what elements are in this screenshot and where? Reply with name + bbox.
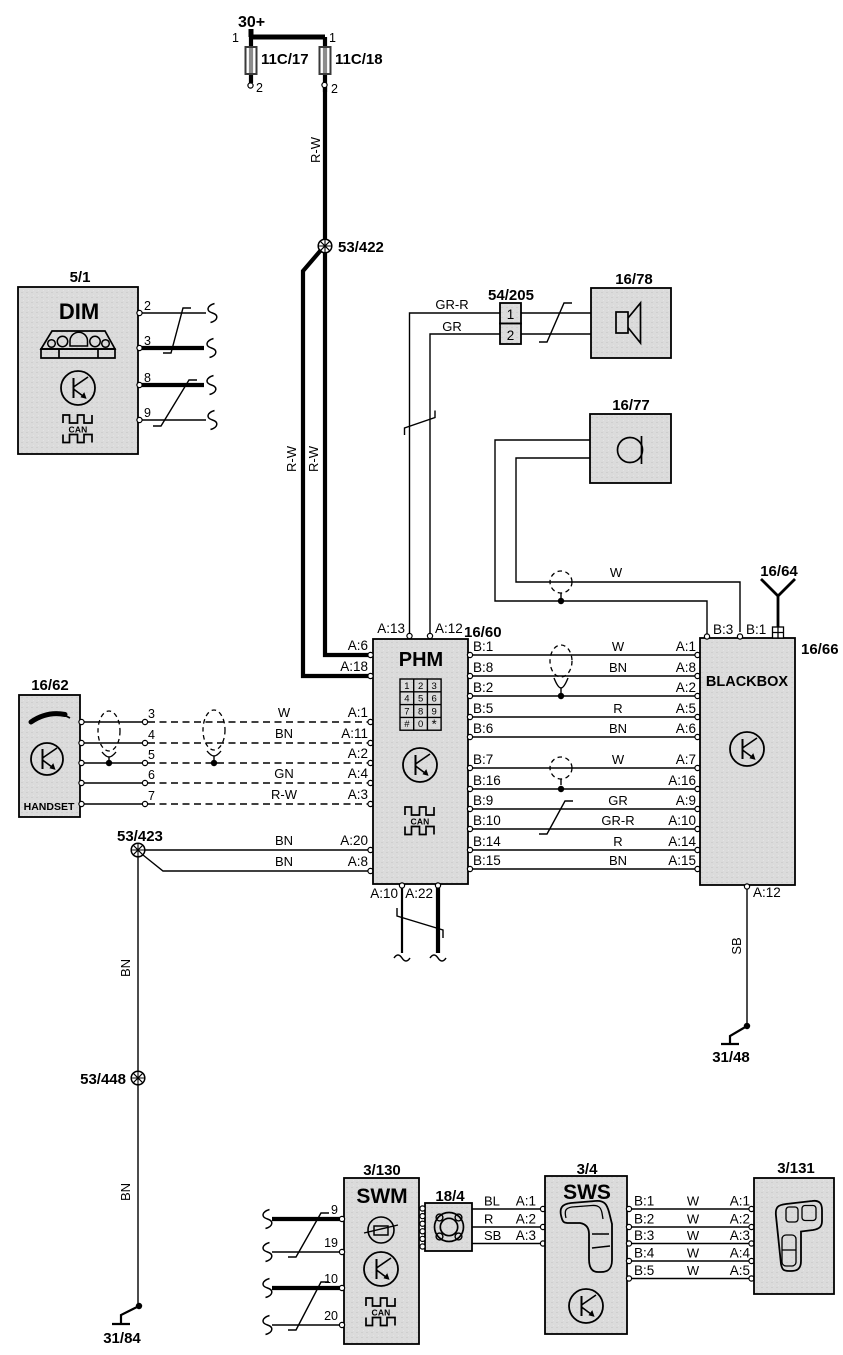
svg-text:A:2: A:2 (730, 1212, 750, 1227)
svg-text:B:14: B:14 (473, 834, 501, 849)
wire W SWS B:5 to 3/131 A:5 (626, 1276, 631, 1281)
SWS transistor icon (569, 1289, 603, 1323)
svg-text:R: R (613, 701, 622, 716)
wire 54/205 pin1 to speaker (521, 312, 591, 314)
svg-text:B:15: B:15 (473, 853, 501, 868)
svg-text:DIM: DIM (59, 299, 99, 324)
svg-text:#: # (404, 719, 410, 730)
shield symbol B:7 (550, 757, 572, 779)
3/131 keypad icon (776, 1201, 822, 1271)
svg-text:16/78: 16/78 (615, 271, 653, 288)
svg-text:0: 0 (418, 719, 423, 730)
pin A:12 of BLACKBOX (744, 884, 749, 889)
svg-text:A:6: A:6 (676, 721, 696, 736)
svg-text:B:5: B:5 (634, 1263, 654, 1278)
wire W PHM B:7 to BLACKBOX A:7 (467, 765, 472, 770)
svg-text:GR: GR (608, 793, 628, 808)
svg-text:R-W: R-W (306, 445, 321, 472)
wire link PHM B:16 to BLACKBOX A:16 (467, 786, 472, 791)
svg-text:5: 5 (418, 694, 423, 705)
wire W SWS B:2 to 3/131 A:2 (626, 1224, 631, 1229)
wire R PHM B:5 to BLACKBOX A:5 (467, 714, 472, 719)
svg-text:53/422: 53/422 (338, 239, 384, 256)
pin 9 of SWM + wire (272, 1217, 340, 1221)
svg-text:6: 6 (432, 694, 437, 705)
pin A:13 of PHM (407, 633, 412, 638)
svg-text:16/62: 16/62 (31, 677, 69, 694)
svg-text:A:8: A:8 (348, 854, 368, 869)
svg-text:A:4: A:4 (730, 1246, 751, 1261)
twisted pair symbol mid harness (203, 710, 225, 750)
svg-text:GR-R: GR-R (601, 813, 634, 828)
svg-text:B:9: B:9 (473, 793, 493, 808)
svg-text:20: 20 (324, 1309, 338, 1323)
wire GR to 54/205 pin 2 (430, 334, 500, 636)
svg-text:B:8: B:8 (473, 660, 493, 675)
break symbol SWM 10/20 (288, 1282, 329, 1330)
svg-text:A:15: A:15 (668, 853, 696, 868)
svg-text:R: R (484, 1212, 493, 1227)
svg-text:A:1: A:1 (516, 1194, 536, 1209)
pin 3 of handset / wire W to PHM A:1 (79, 719, 84, 724)
shield symbol on mic cable (550, 571, 572, 593)
svg-text:B:7: B:7 (473, 752, 493, 767)
svg-text:5/1: 5/1 (70, 269, 91, 286)
svg-text:W: W (687, 1228, 700, 1243)
wire from DIM pin 9 (142, 419, 206, 421)
wire BN 53/448 to ground (137, 1085, 139, 1306)
svg-text:A:5: A:5 (730, 1263, 750, 1278)
twisted pair symbol near handset (98, 711, 120, 751)
svg-text:54/205: 54/205 (488, 287, 534, 304)
ground 31/84 (136, 1303, 142, 1309)
wire GR-R to 54/205 pin 1 (410, 313, 501, 636)
svg-text:BL: BL (484, 1194, 500, 1209)
svg-text:A:3: A:3 (516, 1228, 536, 1243)
svg-text:A:2: A:2 (676, 680, 696, 695)
pin 10 of SWM + wire (272, 1286, 340, 1290)
svg-text:W: W (278, 705, 291, 720)
wire SB BLACKBOX A:12 to ground (746, 889, 748, 1026)
wire fuse 11C/18 drop (323, 37, 327, 92)
SWM CAN icon (366, 1298, 395, 1306)
pin 2 of 11C/18 (322, 82, 327, 87)
svg-text:SB: SB (484, 1228, 501, 1243)
svg-text:4: 4 (404, 694, 409, 705)
svg-text:W: W (687, 1212, 700, 1227)
svg-text:GR: GR (442, 319, 462, 334)
pin 8 of DIM (137, 382, 142, 387)
svg-text:B:5: B:5 (473, 701, 493, 716)
wire BN PHM B:8 to BLACKBOX A:8 (467, 673, 472, 678)
svg-text:W: W (687, 1194, 700, 1209)
wire BN splice 53/423 down to 53/448 (137, 857, 139, 1071)
svg-text:A:13: A:13 (377, 621, 405, 636)
svg-text:2: 2 (144, 299, 151, 313)
svg-text:A:8: A:8 (676, 660, 696, 675)
PHM keypad icon (400, 679, 441, 730)
wire 54/205 pin2 to speaker (521, 333, 591, 335)
svg-text:*: * (432, 717, 437, 732)
svg-text:BLACKBOX: BLACKBOX (706, 674, 788, 690)
wire W SWS B:1 to 3/131 A:1 (626, 1206, 631, 1211)
break symbol under PHM (397, 908, 443, 938)
svg-text:B:16: B:16 (473, 773, 501, 788)
break symbol speaker wires (539, 303, 572, 342)
svg-text:CAN: CAN (68, 425, 87, 435)
svg-text:19: 19 (324, 1236, 338, 1250)
svg-text:R-W: R-W (308, 136, 323, 163)
pin 20 of SWM + wire (272, 1324, 341, 1326)
svg-text:4: 4 (148, 728, 155, 742)
svg-text:11C/17: 11C/17 (261, 51, 309, 68)
svg-text:1: 1 (329, 31, 336, 45)
break symbol SWM 9/19 (288, 1213, 329, 1257)
svg-text:BN: BN (609, 721, 627, 736)
wire fuse 11C/17 drop (249, 37, 253, 83)
pin A:10 of PHM (399, 883, 404, 888)
svg-text:A:1: A:1 (676, 639, 696, 654)
wire R-W splice to PHM A:6 (325, 252, 371, 655)
fuse 11C/18 (320, 47, 331, 74)
svg-text:A:6: A:6 (348, 638, 368, 653)
PHM CAN icon (405, 807, 434, 815)
svg-text:8: 8 (418, 706, 423, 717)
svg-text:A:10: A:10 (370, 886, 398, 901)
svg-text:BN: BN (609, 660, 627, 675)
wire from DIM pin 2 (142, 312, 206, 314)
wire BL 18/4 to SWS A:1 (472, 1208, 541, 1210)
svg-text:A:12: A:12 (753, 885, 781, 900)
wire BN PHM B:6 to BLACKBOX A:6 (467, 734, 472, 739)
svg-text:53/423: 53/423 (117, 828, 163, 845)
svg-text:A:4: A:4 (348, 766, 369, 781)
pin 2 of DIM (137, 310, 142, 315)
svg-text:16/66: 16/66 (801, 641, 839, 658)
svg-text:1: 1 (507, 307, 515, 322)
svg-text:BN: BN (118, 1183, 133, 1201)
svg-text:9: 9 (331, 1203, 338, 1217)
svg-text:A:10: A:10 (668, 813, 696, 828)
svg-text:PHM: PHM (399, 649, 443, 671)
svg-text:B:1: B:1 (473, 639, 493, 654)
wire link PHM B:2 to BLACKBOX A:2 (467, 693, 472, 698)
svg-text:3: 3 (148, 707, 155, 721)
wire 30+ feed horizontal (249, 29, 325, 37)
svg-text:7: 7 (404, 706, 409, 717)
wire R-W main vertical from fuse to splice (323, 87, 327, 241)
wire from DIM pin 3 (thick) (142, 346, 204, 350)
pin 2 of 11C/17 (248, 83, 253, 88)
svg-text:A:1: A:1 (730, 1194, 750, 1209)
pin 9 of DIM (137, 417, 142, 422)
svg-text:6: 6 (148, 768, 155, 782)
svg-text:SB: SB (729, 937, 744, 954)
wire mic shield to BLACKBOX B:3 (495, 440, 707, 634)
wire BN splice to PHM A:8 (143, 855, 369, 871)
svg-text:BN: BN (609, 853, 627, 868)
pin 6 of handset / wire GN to PHM A:4 (79, 780, 84, 785)
svg-text:SWM: SWM (356, 1185, 407, 1208)
wire W SWS B:4 to 3/131 A:4 (626, 1258, 631, 1263)
svg-text:7: 7 (148, 789, 155, 803)
svg-text:B:1: B:1 (634, 1194, 654, 1209)
svg-text:31/48: 31/48 (712, 1049, 750, 1066)
wire GR PHM B:9 to BLACKBOX A:9 (467, 806, 472, 811)
pin B:3 of BLACKBOX (704, 634, 709, 639)
svg-text:B:6: B:6 (473, 721, 493, 736)
SWM transistor icon (364, 1252, 398, 1286)
svg-text:A:5: A:5 (676, 701, 696, 716)
svg-text:BN: BN (275, 854, 293, 869)
pin 4 of handset / wire BN to PHM A:11 (79, 740, 84, 745)
DIM instrument cluster icon (41, 331, 115, 349)
svg-text:11C/18: 11C/18 (335, 51, 383, 68)
svg-text:CAN: CAN (371, 1308, 390, 1318)
SWM horn icon (368, 1217, 394, 1243)
svg-text:BN: BN (118, 959, 133, 977)
wire R PHM B:14 to BLACKBOX A:14 (467, 847, 472, 852)
PHM transistor icon (403, 748, 437, 782)
svg-text:A:14: A:14 (668, 834, 696, 849)
DIM CAN icon (63, 415, 92, 423)
svg-text:3: 3 (432, 681, 437, 692)
svg-text:A:2: A:2 (516, 1212, 536, 1227)
splice 53/422 (318, 239, 332, 253)
wire BN splice to PHM A:20 (145, 849, 369, 851)
pin 19 of SWM + wire (272, 1251, 341, 1253)
DIM transistor icon (61, 371, 95, 405)
wire W PHM B:1 to BLACKBOX A:1 (467, 652, 472, 657)
wire R 18/4 to SWS A:2 (472, 1226, 541, 1228)
svg-text:SWS: SWS (563, 1181, 611, 1204)
svg-text:2: 2 (256, 81, 263, 95)
svg-text:A:12: A:12 (435, 621, 463, 636)
svg-text:3/130: 3/130 (363, 1162, 401, 1179)
pin 3 of DIM (137, 345, 142, 350)
svg-text:1: 1 (232, 31, 239, 45)
svg-text:B:2: B:2 (634, 1212, 654, 1227)
break symbol B:9/B:10 (539, 801, 573, 834)
svg-text:R-W: R-W (271, 787, 298, 802)
svg-text:A:16: A:16 (668, 773, 696, 788)
svg-text:A:11: A:11 (341, 726, 368, 741)
svg-text:5: 5 (148, 748, 155, 762)
svg-text:HANDSET: HANDSET (24, 801, 75, 813)
wire R-W branch splice to PHM A:18 (303, 250, 371, 676)
svg-text:W: W (687, 1263, 700, 1278)
SWS stalk icon (561, 1201, 612, 1272)
pin A:12 of PHM (427, 633, 432, 638)
16/62 transistor icon (31, 743, 63, 775)
svg-text:BN: BN (275, 833, 293, 848)
svg-text:GN: GN (274, 766, 294, 781)
svg-text:BN: BN (275, 726, 293, 741)
svg-text:A:18: A:18 (340, 659, 368, 674)
handset icon (31, 714, 65, 722)
break symbol DIM pins 8-9 (153, 380, 197, 426)
wire from DIM pin 8 (thick) (142, 383, 204, 387)
svg-text:2: 2 (418, 681, 423, 692)
svg-text:A:9: A:9 (676, 793, 696, 808)
pin 5 of handset / wire shield to PHM A:2 (79, 760, 84, 765)
svg-text:A:3: A:3 (348, 787, 368, 802)
svg-text:A:7: A:7 (676, 752, 696, 767)
svg-text:W: W (687, 1246, 700, 1261)
svg-text:A:1: A:1 (348, 705, 368, 720)
svg-text:3/131: 3/131 (777, 1160, 815, 1177)
svg-text:31/84: 31/84 (103, 1330, 141, 1347)
svg-text:A:2: A:2 (348, 746, 368, 761)
twisted pair symbol B:1/B:8 (550, 645, 572, 677)
svg-text:9: 9 (144, 406, 151, 420)
svg-text:16/64: 16/64 (760, 563, 798, 580)
fuse 11C/17 (246, 47, 257, 74)
wire mic signal W to BLACKBOX B:1 (516, 458, 740, 632)
svg-text:30+: 30+ (238, 14, 265, 31)
pin A:22 of PHM (435, 883, 440, 888)
pin 7 of handset / wire R-W to PHM A:3 (79, 801, 84, 806)
wire GR-R PHM B:10 to BLACKBOX A:10 (467, 826, 472, 831)
svg-text:CAN: CAN (410, 817, 429, 827)
svg-text:W: W (612, 752, 625, 767)
ground 31/48 (744, 1023, 750, 1029)
svg-text:2: 2 (331, 82, 338, 96)
break symbol on GR-R/GR verticals (405, 411, 436, 436)
break symbol DIM pins 2-3 (163, 308, 191, 353)
wire from PHM A:10 (401, 888, 403, 953)
svg-text:GR-R: GR-R (435, 297, 468, 312)
wire SB 18/4 to SWS A:3 (472, 1243, 541, 1245)
svg-text:B:3: B:3 (634, 1228, 654, 1243)
svg-text:B:4: B:4 (634, 1246, 655, 1261)
svg-text:A:22: A:22 (405, 886, 433, 901)
wire from PHM A:22 (thick) (436, 888, 440, 953)
svg-text:A:3: A:3 (730, 1228, 750, 1243)
wire W SWS B:3 to 3/131 A:3 (626, 1241, 631, 1246)
svg-text:A:20: A:20 (340, 833, 368, 848)
svg-text:B:10: B:10 (473, 813, 501, 828)
svg-text:W: W (610, 565, 623, 580)
svg-text:2: 2 (507, 328, 515, 343)
svg-text:16/77: 16/77 (612, 397, 650, 414)
svg-text:10: 10 (324, 1272, 338, 1286)
svg-text:R: R (613, 834, 622, 849)
svg-text:W: W (612, 639, 625, 654)
wire BN PHM B:15 to BLACKBOX A:15 (467, 866, 472, 871)
svg-text:B:3: B:3 (713, 622, 733, 637)
pin B:1 of BLACKBOX (737, 634, 742, 639)
svg-text:B:1: B:1 (746, 622, 766, 637)
svg-text:1: 1 (404, 681, 409, 692)
svg-text:53/448: 53/448 (80, 1071, 126, 1088)
svg-text:B:2: B:2 (473, 680, 493, 695)
svg-text:R-W: R-W (284, 445, 299, 472)
